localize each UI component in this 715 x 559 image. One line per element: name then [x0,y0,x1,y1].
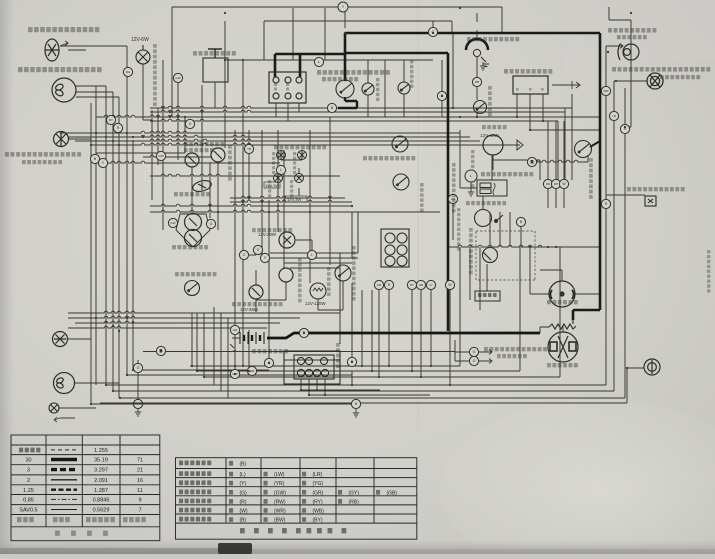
node RB [472,77,481,86]
svg-text:GW: GW [170,221,175,225]
lamp: tail right [644,359,660,375]
label yo [71,531,76,536]
svg-text:LB: LB [612,114,616,118]
svg-text:2.091: 2.091 [94,478,108,484]
label lighting switch (vertical) [352,246,356,301]
node R [113,123,122,132]
label fuel meter [174,192,210,196]
svg-text:3.297: 3.297 [94,468,108,474]
label fuel element (vertical) [452,163,456,213]
node GW [230,369,239,378]
label cigar lighter (vertical) [327,267,331,296]
svg-text:(LR): (LR) [313,472,323,478]
label switch [322,77,358,81]
label charge circuit [179,508,211,513]
label side turn signal lamp (vertical) [153,44,157,106]
svg-text:W: W [562,182,566,186]
label sen [103,531,108,536]
label symbol [53,517,70,522]
node R [601,199,610,208]
label colorcode [342,528,347,533]
label generator [547,300,578,304]
label other [302,472,306,477]
node R [347,357,356,366]
voltage regulator box [513,76,548,94]
node W [559,179,568,188]
label backup switch (vertical) [589,158,593,199]
ground [480,62,486,70]
thick bus wire: left branch into selector box [275,33,345,81]
node R [620,124,629,133]
node W [445,280,454,289]
node LB [609,111,618,120]
switch motor switch [398,82,410,94]
label 12V-23/7W [660,75,700,79]
label contact breaker [466,201,506,205]
svg-text:G: G [257,248,260,252]
label washer motor [232,302,283,306]
thick bus wire: top run to right edge [345,33,600,320]
label high tension wire [19,448,40,453]
svg-text:(BY): (BY) [313,518,323,524]
horn [176,214,210,248]
svg-text:(L): (L) [240,472,246,478]
node WR [601,86,610,95]
label battery 12V-26Ah [252,349,288,353]
switch horn relay [393,174,409,190]
node LW [448,194,457,203]
label other [264,472,268,477]
svg-text:(RB): (RB) [349,499,360,505]
node R [527,157,536,166]
label signal [229,490,233,495]
svg-text:G: G [473,359,476,363]
label start circuit [179,517,211,522]
label other [229,472,233,477]
node G [469,356,478,365]
label turn signal stop tail lamp [612,67,710,72]
node L [276,165,285,174]
lamp head lamp [52,78,76,102]
svg-text:(GW): (GW) [274,490,286,496]
label ignition starter sw [317,70,390,75]
label head lamp 12V-55/40W [18,67,102,72]
dark stain bottom [218,543,252,554]
label beam pilot (vertical) [268,180,271,197]
svg-text:GW: GW [158,154,163,158]
label light [264,499,268,504]
connector box (column switch) [269,72,306,103]
svg-text:(GY): (GY) [349,490,360,496]
lamp: side turn signal [136,45,150,64]
oil pressure unit [483,248,498,263]
label charge [229,508,233,513]
node G [206,219,215,228]
node G [133,363,142,372]
label starter [547,363,578,367]
motor 12V-40W [483,135,503,155]
svg-text:11: 11 [137,488,143,494]
label wiper switch (vertical) [298,258,302,302]
ground [468,188,474,196]
lamp: turn/parking front [54,132,69,147]
svg-text:GW: GW [175,76,180,80]
label meter [302,481,306,486]
label light [302,499,306,504]
label motor switch (vertical) [410,60,413,88]
svg-text:(WB): (WB) [313,509,325,515]
label pins (vertical) [274,83,277,91]
svg-text:R: R [388,283,391,287]
label colorcode [296,528,301,533]
svg-text:12V-40W: 12V-40W [480,133,500,138]
label colorcode [317,528,322,533]
label section [86,517,115,522]
node B [156,346,165,355]
label meter lamp 12V-3W [274,145,326,149]
svg-text:WR: WR [604,89,610,93]
wire mesh [59,7,647,418]
svg-text:30: 30 [25,458,31,464]
room lamp [466,39,488,50]
svg-text:0.8846: 0.8846 [93,498,110,504]
svg-text:12V-3W: 12V-3W [287,197,301,202]
label turn signal [184,142,224,146]
label signal [302,490,306,495]
label oil unit (vertical) [471,150,474,188]
label signal [264,490,268,495]
node GW [156,151,165,160]
node G [428,27,437,36]
svg-text:G: G [210,222,213,226]
node GW [173,73,182,82]
svg-text:YB: YB [247,147,251,151]
svg-text:(GB): (GB) [387,490,398,496]
turn signal unit [185,153,199,167]
svg-text:1.255: 1.255 [94,448,108,454]
node G [253,245,262,254]
label horn switch (vertical) [420,183,424,212]
node B [327,103,336,112]
node L [307,250,316,259]
svg-text:R: R [531,160,534,164]
wiper motor [279,232,295,248]
label stop switch [175,272,217,276]
svg-text:(LW): (LW) [274,472,285,478]
fuel meter [192,179,213,194]
lamp: turn stop tail [647,73,663,89]
thick bus wire: ignition switch hook [338,97,357,108]
label colorcode [268,528,273,533]
label B (vertical) [529,88,532,91]
left table: wire gauge legend [11,435,160,541]
node Y [260,253,269,262]
label pins (vertical) [286,83,289,91]
label meter [229,481,233,486]
lamp: backup lamp [618,44,639,60]
label colorcode [282,528,287,533]
node G [469,347,478,356]
svg-text:1.287: 1.287 [94,488,108,494]
radio box [203,49,228,82]
label signal circuit [179,490,211,495]
svg-text:G: G [473,350,476,354]
svg-text:35.19: 35.19 [94,458,108,464]
svg-text:(GR): (GR) [313,490,324,496]
lamp tail/park lamp left [53,332,68,347]
label horn 12V-30W [172,245,208,249]
label door switch (vertical) [488,86,492,116]
switch stop switch [185,281,200,296]
node GR [374,280,383,289]
ground [135,408,141,416]
svg-text:(WR): (WR) [274,509,286,515]
svg-text:(BW): (BW) [274,518,286,524]
label E (vertical) [541,88,544,91]
license plate lamp [645,196,656,206]
svg-text:12V-20W: 12V-20W [258,232,277,237]
svg-text:(W): (W) [240,509,248,515]
thick bus wire: second run [345,53,448,331]
resistor (ballast) [545,320,576,329]
svg-text:(G): (G) [240,490,248,496]
label earth [229,461,233,466]
svg-text:0.85: 0.85 [23,498,34,504]
meter lamps [277,151,286,160]
label use [55,531,60,536]
svg-text:12V-3W: 12V-3W [265,183,279,188]
label meter [264,481,268,486]
label ignition coil [481,172,533,176]
svg-text:RP: RP [554,182,558,186]
label charge [302,508,306,513]
label 12V-12W [617,35,647,39]
label voltage regulator [504,69,552,74]
connector block 2x3 [381,229,409,267]
label colorcode [254,528,259,533]
label unit [184,148,214,152]
node B [264,358,273,367]
node GB [416,280,425,289]
label sw label (vertical) [376,78,379,101]
node B [437,91,446,100]
label hazard unit (vertical) [228,145,232,181]
svg-text:7: 7 [138,508,141,514]
node L [314,57,323,66]
right table: wire color legend [176,458,417,540]
label meter circuit [179,480,211,485]
thick bus wire: battery main feed [267,333,540,338]
switch lighting switch [335,265,351,281]
svg-text:71: 71 [137,458,143,464]
label radio 12V-6W [193,51,236,56]
label safe current [123,517,146,522]
svg-text:SAV0.5: SAV0.5 [19,508,37,514]
label charge pilot (vertical) [272,152,275,174]
svg-text:G: G [189,122,192,126]
svg-text:L: L [318,60,320,64]
svg-text:RB: RB [475,80,479,84]
hazard unit [211,148,225,162]
label unit label (vertical) [457,208,460,251]
label license lamp 12V-8W [627,187,685,191]
label room lamp 12V-8W [467,37,519,41]
label turn signal pilot [484,347,547,351]
switch fog lamp switch [392,136,408,152]
svg-text:21: 21 [137,468,143,474]
label wiper motor [252,228,292,232]
svg-text:(B): (B) [240,518,247,524]
svg-text:RY: RY [109,118,113,122]
node GB [247,366,256,375]
hazard switch connector [284,351,340,384]
contact breaker [475,210,504,227]
generator [549,281,575,307]
node Y [338,2,348,12]
label wire [87,531,92,536]
label green-black [376,490,380,495]
svg-text:LY: LY [429,283,432,287]
starter motor [548,332,578,362]
ignition coil [477,180,507,196]
label 12V-3W [497,354,527,358]
label pilot (vertical) [293,152,296,174]
svg-text:2: 2 [27,478,30,484]
label turn signal parking lamp [5,152,81,157]
svg-text:G: G [137,366,140,370]
label light [338,499,342,504]
label colorcode [328,528,333,533]
node RD [543,179,552,188]
label earth circuit [179,461,211,466]
svg-text:R: R [117,126,120,130]
svg-text:L: L [280,168,282,172]
node C [239,250,248,259]
wiper switch [279,268,293,282]
label fog lamp switch [363,156,415,160]
label start [302,517,306,522]
svg-text:(YG): (YG) [313,481,324,487]
svg-text:9: 9 [138,498,141,504]
node RY [407,280,416,289]
node RP [551,179,560,188]
svg-text:12V-120W: 12V-120W [305,301,326,306]
node G [185,119,194,128]
label distributor (vertical) [469,228,473,274]
svg-text:GB: GB [419,283,423,287]
label backup lamp [608,28,656,33]
svg-text:12V-6W: 12V-6W [131,37,149,43]
node B [299,328,308,337]
label colorcode [307,528,312,533]
svg-text:C: C [243,253,246,257]
node B [351,399,360,408]
svg-text:RY: RY [410,283,414,287]
label light circuit [179,499,211,504]
label charge [264,508,268,513]
svg-text:(YR): (YR) [274,481,285,487]
svg-text:16: 16 [137,478,143,484]
svg-text:L: L [470,174,472,178]
svg-text:W: W [448,283,452,287]
cigar lighter [310,283,326,299]
label 12V-23/7W [22,160,62,164]
switch ignition starter switch [336,80,354,98]
lamp rear combination lamp [54,373,75,394]
battery 12V-26Ah [240,332,264,344]
label kind [17,517,34,522]
node RG [123,67,132,76]
node B [516,217,525,226]
node RY [106,115,115,124]
lamp: small rear [49,403,59,413]
label start [264,517,268,522]
label hazard switch (vertical) [336,343,340,368]
label fog lamp 12V-20W [28,27,99,32]
svg-text:(B): (B) [240,461,247,467]
svg-text:(R): (R) [240,499,247,505]
svg-text:(RW): (RW) [274,499,286,505]
ground [353,409,359,417]
switch parking switch [362,83,374,95]
node GW [168,218,177,227]
washer motor [249,285,263,299]
switch door switch [474,101,487,114]
label engine [478,293,497,297]
label pilot (vertical) [290,180,293,197]
thick link to backup switch [590,141,600,147]
svg-text:(RY): (RY) [313,499,324,505]
switch backup switch [575,141,592,158]
node B [90,154,99,163]
svg-text:3: 3 [27,468,30,474]
node R [384,280,393,289]
svg-text:(Y): (Y) [240,481,247,487]
node LY [426,280,435,289]
svg-text:R: R [605,202,608,206]
svg-text:0.5629: 0.5629 [93,508,110,514]
svg-text:12V-35W: 12V-35W [240,307,259,312]
lamp: fog lamp [45,39,68,61]
engine box [475,291,500,301]
svg-text:RG: RG [126,70,131,74]
svg-text:L: L [311,253,313,257]
label other circuit [179,471,211,476]
node GR [230,325,239,334]
node Y [98,158,107,167]
node L [465,170,477,182]
label start [229,517,233,522]
label signal [338,490,342,495]
svg-text:GB: GB [250,369,254,373]
label colorcode [240,528,245,533]
label light [229,499,233,504]
label motor [482,125,507,129]
label A (vertical) [516,88,519,91]
label edge label (vertical) [707,250,710,293]
svg-text:1.25: 1.25 [23,488,34,494]
node YB [244,144,253,153]
